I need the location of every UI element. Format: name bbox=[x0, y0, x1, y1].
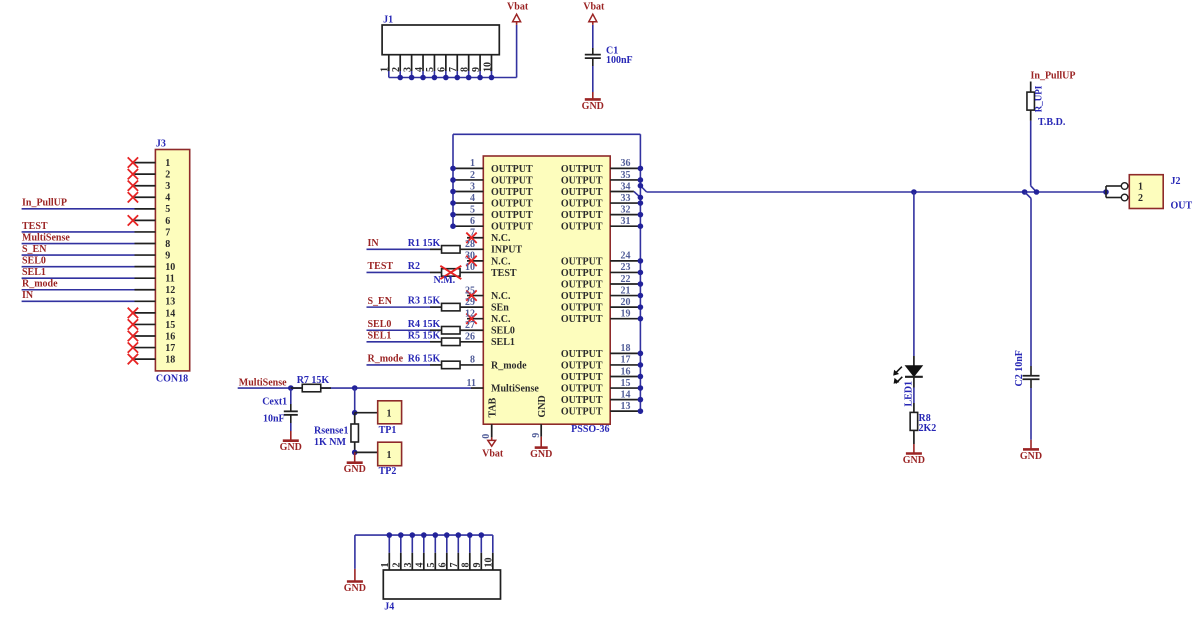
svg-text:12: 12 bbox=[165, 285, 175, 296]
svg-text:7: 7 bbox=[448, 67, 459, 72]
svg-text:MultiSense: MultiSense bbox=[22, 232, 70, 243]
no-connect X J3 pin 16 bbox=[128, 331, 138, 341]
wire net TEST (J3 pin 7) bbox=[22, 221, 135, 232]
resistor R1 (R1 15K) net IN to IC pin 28 INPUT bbox=[367, 238, 523, 256]
IC body PSSO-36 bbox=[483, 156, 610, 435]
svg-text:GND: GND bbox=[280, 442, 302, 453]
IC pin 23 OUTPUT (right) bbox=[561, 262, 643, 279]
resistor R_UPI T.B.D. bbox=[1027, 82, 1066, 128]
ground GND (IC pin 9) bbox=[530, 437, 552, 460]
svg-text:S_EN: S_EN bbox=[368, 296, 393, 307]
junctions J1 bus bbox=[397, 75, 494, 81]
svg-text:1: 1 bbox=[165, 158, 170, 169]
svg-text:OUTPUT: OUTPUT bbox=[561, 349, 603, 360]
svg-text:OUTPUT: OUTPUT bbox=[491, 198, 533, 209]
svg-text:19: 19 bbox=[621, 308, 631, 319]
J3 pin 6 bbox=[135, 216, 171, 227]
svg-text:8: 8 bbox=[165, 239, 170, 250]
svg-text:INPUT: INPUT bbox=[491, 245, 522, 256]
svg-text:9: 9 bbox=[165, 250, 170, 261]
wire C1 to GND bbox=[592, 66, 594, 92]
wire net MultiSense (J3 pin 8) bbox=[22, 232, 135, 243]
svg-text:R6 15K: R6 15K bbox=[408, 354, 441, 365]
svg-text:OUT: OUT bbox=[1171, 200, 1193, 211]
svg-text:20: 20 bbox=[621, 297, 631, 308]
J3 pin 4 bbox=[135, 193, 171, 204]
J3 pin 12 bbox=[135, 285, 176, 296]
svg-text:24: 24 bbox=[621, 251, 631, 262]
svg-text:30: 30 bbox=[465, 251, 475, 262]
svg-text:OUTPUT: OUTPUT bbox=[561, 360, 603, 371]
svg-text:2: 2 bbox=[470, 170, 475, 181]
svg-text:OUTPUT: OUTPUT bbox=[561, 187, 603, 198]
no-connect X J3 pin 17 bbox=[128, 342, 138, 352]
no-connect X J3 pin 3 bbox=[128, 181, 138, 191]
svg-text:17: 17 bbox=[621, 355, 631, 366]
wire right bus (outputs) bbox=[639, 134, 641, 411]
svg-text:S_EN: S_EN bbox=[22, 244, 47, 255]
svg-text:TAB: TAB bbox=[487, 397, 498, 417]
svg-text:N.C.: N.C. bbox=[491, 256, 511, 267]
svg-text:GND: GND bbox=[344, 583, 366, 594]
svg-text:0: 0 bbox=[481, 434, 492, 439]
power Vbat (C1) bbox=[583, 2, 605, 25]
J3 pin 10 bbox=[135, 262, 176, 273]
J4 pin 1 bbox=[380, 532, 392, 570]
svg-text:OUTPUT: OUTPUT bbox=[561, 383, 603, 394]
J1 pin 5 bbox=[425, 55, 436, 78]
svg-text:OUTPUT: OUTPUT bbox=[491, 164, 533, 175]
wire R8 to GND bbox=[913, 430, 915, 444]
svg-text:N.C.: N.C. bbox=[491, 291, 511, 302]
svg-text:OUTPUT: OUTPUT bbox=[491, 187, 533, 198]
svg-text:R_UPI: R_UPI bbox=[1034, 85, 1044, 112]
no-connect IC pin 25 N.C. bbox=[465, 285, 511, 302]
IC pin 16 OUTPUT (right) bbox=[561, 366, 643, 383]
ground GND (Cext1) bbox=[280, 431, 302, 453]
J3 pin 5 bbox=[135, 204, 171, 215]
no-connect X J3 pin 18 bbox=[128, 354, 138, 364]
J4 pin 7 bbox=[449, 532, 461, 570]
svg-text:SEL1: SEL1 bbox=[368, 331, 392, 342]
svg-text:J3: J3 bbox=[156, 139, 166, 150]
J1 pin 1 bbox=[380, 55, 391, 78]
svg-text:9: 9 bbox=[472, 563, 483, 568]
LED LED1 bbox=[893, 356, 923, 407]
svg-text:J4: J4 bbox=[384, 602, 394, 613]
resistor Rsense1 1K NM bbox=[314, 413, 358, 453]
wire left bus (pins 1-6) bbox=[452, 134, 454, 226]
svg-text:10: 10 bbox=[482, 62, 493, 72]
ground GND (C1) bbox=[582, 92, 604, 112]
svg-text:OUTPUT: OUTPUT bbox=[561, 314, 603, 325]
svg-text:J1: J1 bbox=[383, 15, 393, 26]
no-connect IC pin 12 N.C. bbox=[465, 308, 511, 325]
svg-text:7: 7 bbox=[449, 563, 460, 568]
no-connect X J3 pin 15 bbox=[128, 319, 138, 329]
IC pin 0 TAB bbox=[481, 397, 498, 438]
svg-text:MultiSense: MultiSense bbox=[491, 383, 539, 394]
ground GND (Rsense1) bbox=[344, 452, 366, 475]
IC pin 17 OUTPUT (right) bbox=[561, 355, 643, 372]
net label MultiSense bbox=[238, 378, 355, 389]
svg-text:GND: GND bbox=[582, 101, 604, 112]
svg-text:In_PullUP: In_PullUP bbox=[1030, 70, 1075, 81]
no-connect IC pin 7 N.C. bbox=[466, 228, 511, 245]
svg-text:17: 17 bbox=[165, 343, 175, 354]
svg-text:22: 22 bbox=[621, 274, 631, 285]
J1 pin 8 bbox=[459, 55, 470, 78]
J3 pin 17 bbox=[135, 343, 176, 354]
svg-text:29: 29 bbox=[465, 297, 475, 308]
svg-text:SEL0: SEL0 bbox=[491, 326, 515, 337]
resistor R7 15K bbox=[291, 375, 331, 392]
node Cext1 junction bbox=[288, 385, 294, 391]
power Vbat (J1) bbox=[507, 2, 529, 25]
svg-text:10: 10 bbox=[484, 558, 495, 568]
J3 pin 16 bbox=[135, 331, 176, 342]
svg-text:28: 28 bbox=[465, 239, 475, 250]
svg-text:SEL1: SEL1 bbox=[491, 337, 515, 348]
capacitor Cext1 10nF bbox=[262, 388, 298, 424]
wire J1 pins to Vbat bbox=[389, 25, 517, 78]
svg-text:OUTPUT: OUTPUT bbox=[561, 222, 603, 233]
svg-text:25: 25 bbox=[465, 285, 475, 296]
svg-text:6: 6 bbox=[438, 563, 449, 568]
testpoint TP2 bbox=[352, 442, 402, 477]
IC pin 34 OUTPUT (right) bbox=[561, 181, 643, 200]
svg-text:15: 15 bbox=[621, 378, 631, 389]
svg-text:32: 32 bbox=[621, 204, 631, 215]
J4 pin 9 bbox=[472, 532, 484, 570]
svg-text:5: 5 bbox=[426, 563, 437, 568]
svg-text:2: 2 bbox=[1138, 193, 1143, 204]
IC pin 4 OUTPUT bbox=[450, 193, 533, 210]
svg-text:10nF: 10nF bbox=[263, 413, 285, 424]
IC pin 24 OUTPUT (right) bbox=[561, 251, 643, 268]
svg-text:R7 15K: R7 15K bbox=[297, 375, 330, 386]
IC pin 14 OUTPUT (right) bbox=[561, 389, 643, 406]
connector J1 bbox=[382, 15, 499, 55]
svg-text:31: 31 bbox=[621, 216, 631, 227]
connector J3 CON18 bbox=[155, 139, 189, 385]
svg-text:OUTPUT: OUTPUT bbox=[561, 198, 603, 209]
svg-text:7: 7 bbox=[165, 227, 170, 238]
svg-text:TP1: TP1 bbox=[379, 425, 397, 436]
svg-text:SEL0: SEL0 bbox=[22, 255, 46, 266]
svg-text:4: 4 bbox=[414, 67, 425, 72]
wire OUT to C2 bbox=[1022, 189, 1031, 366]
J3 pin 8 bbox=[135, 239, 171, 250]
svg-text:Vbat: Vbat bbox=[482, 449, 504, 460]
svg-text:18: 18 bbox=[621, 343, 631, 354]
svg-text:10: 10 bbox=[165, 262, 175, 273]
wire top bus bbox=[453, 133, 640, 135]
svg-text:27: 27 bbox=[465, 320, 475, 331]
svg-text:2K2: 2K2 bbox=[919, 423, 937, 434]
power Vbat (IC TAB) bbox=[482, 437, 504, 459]
svg-text:GND: GND bbox=[344, 464, 366, 475]
IC pin 33 OUTPUT (right) bbox=[561, 193, 643, 210]
svg-text:IN: IN bbox=[368, 238, 380, 249]
svg-text:5: 5 bbox=[425, 67, 436, 72]
svg-text:10: 10 bbox=[465, 262, 475, 273]
svg-text:OUTPUT: OUTPUT bbox=[561, 303, 603, 314]
J3 pin 3 bbox=[135, 181, 171, 192]
svg-text:6: 6 bbox=[165, 216, 170, 227]
svg-text:11: 11 bbox=[467, 378, 476, 389]
svg-text:8: 8 bbox=[461, 563, 472, 568]
J3 pin 9 bbox=[135, 250, 171, 261]
svg-text:GND: GND bbox=[903, 455, 925, 466]
IC pin 9 GND bbox=[531, 395, 548, 437]
ground GND (R8) bbox=[903, 444, 925, 466]
wire net S_EN (J3 pin 9) bbox=[22, 244, 135, 255]
svg-text:16: 16 bbox=[621, 366, 631, 377]
connector J2 bbox=[1106, 175, 1193, 212]
IC pin 13 OUTPUT (right) bbox=[561, 401, 643, 418]
svg-text:R4 15K: R4 15K bbox=[408, 319, 441, 330]
svg-text:SEL1: SEL1 bbox=[22, 267, 46, 278]
IC pin 3 OUTPUT bbox=[450, 181, 533, 198]
J1 pin 4 bbox=[414, 55, 425, 78]
IC pin 22 OUTPUT (right) bbox=[561, 274, 643, 291]
no-connect X J3 pin 14 bbox=[128, 308, 138, 318]
svg-text:2: 2 bbox=[391, 67, 402, 72]
svg-text:36: 36 bbox=[621, 158, 631, 169]
IC pin 2 OUTPUT bbox=[450, 170, 533, 187]
svg-text:GND: GND bbox=[537, 395, 548, 417]
J1 pin 9 bbox=[471, 55, 482, 78]
svg-text:In_PullUP: In_PullUP bbox=[22, 198, 67, 209]
svg-text:OUTPUT: OUTPUT bbox=[561, 175, 603, 186]
svg-text:TEST: TEST bbox=[22, 221, 48, 232]
svg-text:1: 1 bbox=[387, 450, 392, 461]
no-connect X J3 pin 1 bbox=[128, 157, 138, 167]
no-connect X J3 pin 6 bbox=[128, 215, 138, 225]
svg-text:1: 1 bbox=[380, 67, 391, 72]
svg-text:R3 15K: R3 15K bbox=[408, 296, 441, 307]
J4 pin 4 bbox=[415, 532, 427, 570]
svg-text:1: 1 bbox=[387, 409, 392, 420]
svg-text:OUTPUT: OUTPUT bbox=[561, 407, 603, 418]
svg-text:TP2: TP2 bbox=[379, 466, 397, 477]
J3 pin 14 bbox=[135, 308, 176, 319]
svg-text:OUTPUT: OUTPUT bbox=[491, 222, 533, 233]
wire net IN (J3 pin 13) bbox=[22, 290, 135, 301]
no-connect X J3 pin 4 bbox=[128, 192, 138, 202]
J1 pin 10 bbox=[482, 55, 493, 78]
svg-text:2: 2 bbox=[165, 170, 170, 181]
svg-text:1: 1 bbox=[380, 563, 391, 568]
J4 pin 10 bbox=[484, 535, 495, 570]
IC pin 5 OUTPUT bbox=[450, 204, 533, 221]
svg-text:4: 4 bbox=[415, 563, 426, 568]
IC pin 21 OUTPUT (right) bbox=[561, 285, 643, 302]
svg-text:1: 1 bbox=[470, 158, 475, 169]
svg-text:OUTPUT: OUTPUT bbox=[491, 210, 533, 221]
svg-text:4: 4 bbox=[165, 193, 170, 204]
J4 pin 3 bbox=[403, 532, 415, 570]
svg-text:R5 15K: R5 15K bbox=[408, 330, 441, 341]
svg-text:9: 9 bbox=[471, 67, 482, 72]
wire net R_mode (J3 pin 12) bbox=[22, 279, 135, 290]
svg-text:Vbat: Vbat bbox=[507, 2, 529, 13]
svg-text:34: 34 bbox=[621, 181, 631, 192]
svg-text:33: 33 bbox=[621, 193, 631, 204]
svg-text:26: 26 bbox=[465, 332, 475, 343]
wire C2 to GND bbox=[1030, 388, 1032, 440]
svg-text:Vbat: Vbat bbox=[583, 2, 605, 13]
J4 pin 2 bbox=[392, 532, 404, 570]
svg-text:SEL0: SEL0 bbox=[368, 319, 392, 330]
ground GND (C2) bbox=[1020, 440, 1042, 462]
resistor R8 2K2 bbox=[910, 412, 936, 433]
IC pin 19 OUTPUT (right) bbox=[561, 308, 643, 325]
J1 pin 3 bbox=[402, 55, 413, 78]
J3 pin 15 bbox=[135, 320, 176, 331]
capacitor C2 10nF bbox=[1014, 350, 1040, 388]
J4 pin 6 bbox=[438, 532, 450, 570]
svg-text:MultiSense: MultiSense bbox=[239, 378, 287, 389]
svg-text:3: 3 bbox=[403, 563, 414, 568]
wire net SEL0 (J3 pin 10) bbox=[22, 255, 135, 266]
J1 pin 6 bbox=[437, 55, 448, 78]
svg-text:4: 4 bbox=[470, 193, 475, 204]
svg-text:13: 13 bbox=[621, 401, 631, 412]
svg-text:3: 3 bbox=[402, 67, 413, 72]
capacitor C1 100nF bbox=[585, 46, 633, 67]
wire OUT to LED1 bbox=[911, 189, 917, 356]
svg-text:R_mode: R_mode bbox=[22, 279, 58, 290]
svg-text:2: 2 bbox=[392, 563, 403, 568]
wire node OUT: bus to J2 bbox=[638, 183, 1106, 192]
IC pin 11 MultiSense bbox=[355, 378, 540, 395]
svg-text:OUTPUT: OUTPUT bbox=[561, 279, 603, 290]
svg-text:OUTPUT: OUTPUT bbox=[561, 256, 603, 267]
IC pin 1 OUTPUT bbox=[450, 158, 533, 175]
J1 pin 2 bbox=[391, 55, 402, 78]
svg-text:14: 14 bbox=[165, 308, 175, 319]
J3 pin 7 bbox=[135, 227, 171, 238]
svg-text:N.M.: N.M. bbox=[434, 275, 456, 286]
resistor R6 (R6 15K) net R_mode to IC pin 8 R_mode bbox=[367, 354, 528, 372]
svg-text:CON18: CON18 bbox=[156, 373, 188, 384]
svg-text:15: 15 bbox=[165, 320, 175, 331]
svg-text:3: 3 bbox=[165, 181, 170, 192]
no-connect IC pin 30 N.C. bbox=[465, 251, 511, 268]
IC pin 32 OUTPUT (right) bbox=[561, 204, 643, 221]
svg-text:TEST: TEST bbox=[368, 261, 394, 272]
no-connect X J3 pin 2 bbox=[128, 169, 138, 179]
svg-text:OUTPUT: OUTPUT bbox=[561, 164, 603, 175]
svg-text:7: 7 bbox=[470, 228, 475, 239]
svg-text:J2: J2 bbox=[1171, 176, 1181, 187]
svg-text:R2: R2 bbox=[408, 261, 420, 272]
svg-text:TEST: TEST bbox=[491, 268, 517, 279]
svg-text:21: 21 bbox=[621, 285, 631, 296]
svg-text:11: 11 bbox=[165, 274, 174, 285]
svg-text:OUTPUT: OUTPUT bbox=[561, 210, 603, 221]
testpoint TP1 bbox=[355, 401, 402, 436]
J3 pin 18 bbox=[135, 355, 176, 366]
svg-text:12: 12 bbox=[465, 308, 475, 319]
svg-text:OUTPUT: OUTPUT bbox=[561, 268, 603, 279]
wire J4 bus to GND bbox=[355, 535, 493, 569]
svg-text:R1 15K: R1 15K bbox=[408, 238, 441, 249]
node TP junction bbox=[352, 385, 358, 415]
node OUT at J2 bbox=[1103, 186, 1109, 198]
svg-text:18: 18 bbox=[165, 355, 175, 366]
svg-text:1: 1 bbox=[1138, 181, 1143, 192]
svg-text:N.C.: N.C. bbox=[491, 233, 511, 244]
svg-text:OUTPUT: OUTPUT bbox=[561, 372, 603, 383]
IC pin 35 OUTPUT (right) bbox=[561, 170, 643, 187]
J4 pin 5 bbox=[426, 532, 438, 570]
svg-text:C2 10nF: C2 10nF bbox=[1014, 350, 1025, 386]
J3 pin 11 bbox=[135, 274, 175, 285]
wire net In_PullUP (J3 pin 5) bbox=[22, 198, 135, 209]
wire R_UPI to OUT net bbox=[1031, 121, 1040, 195]
svg-text:Cext1: Cext1 bbox=[262, 397, 287, 408]
svg-text:5: 5 bbox=[165, 204, 170, 215]
svg-text:1K NM: 1K NM bbox=[314, 437, 347, 448]
wire net SEL1 (J3 pin 11) bbox=[22, 267, 135, 278]
IC pin 15 OUTPUT (right) bbox=[561, 378, 643, 395]
svg-text:14: 14 bbox=[621, 389, 631, 400]
resistor R2 (R2) net TEST to IC pin 10 TEST bbox=[367, 261, 517, 286]
resistor R4 (R4 15K) net SEL0 to IC pin 27 SEL0 bbox=[367, 319, 515, 337]
svg-text:LED1: LED1 bbox=[904, 381, 915, 407]
wire Cext1 to GND bbox=[290, 423, 292, 431]
wire Vbat to C1 bbox=[592, 25, 594, 48]
svg-text:3: 3 bbox=[470, 181, 475, 192]
svg-text:OUTPUT: OUTPUT bbox=[491, 175, 533, 186]
svg-text:OUTPUT: OUTPUT bbox=[561, 395, 603, 406]
svg-text:Rsense1: Rsense1 bbox=[314, 425, 348, 436]
J3 pin 13 bbox=[135, 297, 176, 308]
svg-text:R_mode: R_mode bbox=[491, 360, 527, 371]
svg-text:9: 9 bbox=[531, 433, 542, 438]
resistor R3 (R3 15K) net S_EN to IC pin 29 SEn bbox=[367, 296, 510, 314]
resistor R5 (R5 15K) net SEL1 to IC pin 26 SEL1 bbox=[367, 330, 515, 348]
IC pin 36 OUTPUT (right) bbox=[561, 158, 643, 175]
svg-text:6: 6 bbox=[437, 67, 448, 72]
connector J4 bbox=[383, 570, 500, 613]
svg-text:GND: GND bbox=[1020, 451, 1042, 462]
J3 pin 2 bbox=[135, 170, 171, 181]
IC pin 6 OUTPUT bbox=[450, 216, 533, 233]
wire LED1 to R8 bbox=[913, 377, 915, 388]
J4 pin 8 bbox=[461, 532, 473, 570]
J3 pin 1 bbox=[135, 158, 171, 169]
svg-text:35: 35 bbox=[621, 170, 631, 181]
ground GND (J4) bbox=[344, 569, 366, 594]
svg-text:N.C.: N.C. bbox=[491, 314, 511, 325]
svg-text:IN: IN bbox=[22, 290, 34, 301]
svg-text:8: 8 bbox=[470, 355, 475, 366]
IC pin 20 OUTPUT (right) bbox=[561, 297, 643, 314]
svg-text:OUTPUT: OUTPUT bbox=[561, 291, 603, 302]
J1 pin 7 bbox=[448, 55, 459, 78]
svg-text:5: 5 bbox=[470, 204, 475, 215]
svg-text:23: 23 bbox=[621, 262, 631, 273]
svg-text:PSSO-36: PSSO-36 bbox=[571, 424, 609, 435]
svg-text:13: 13 bbox=[165, 297, 175, 308]
svg-text:100nF: 100nF bbox=[606, 55, 633, 66]
svg-text:GND: GND bbox=[530, 449, 552, 460]
svg-text:16: 16 bbox=[165, 331, 175, 342]
